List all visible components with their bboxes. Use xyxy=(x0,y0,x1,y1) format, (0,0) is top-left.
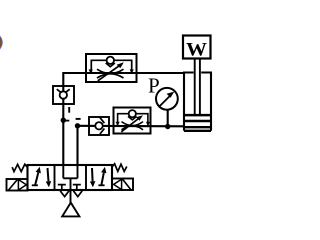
right solenoid box xyxy=(112,179,133,191)
cylinder bottom cap xyxy=(184,127,211,131)
center envelope port B stub xyxy=(77,165,79,178)
wire riser B xyxy=(76,126,78,165)
wire vertical dash mark xyxy=(68,107,70,113)
right pilot triangle xyxy=(114,179,122,189)
directional valve body xyxy=(28,165,113,190)
center blocked port P xyxy=(58,185,66,190)
left envelope up arrow xyxy=(35,173,38,186)
center blocked port T xyxy=(73,185,81,190)
FCV2 check ball xyxy=(129,110,136,117)
check valve CV1 box xyxy=(53,86,74,104)
drain mark right xyxy=(73,191,82,197)
right envelope up arrow xyxy=(101,173,104,186)
check valve CV2 box xyxy=(89,117,109,135)
right solenoid diagonal xyxy=(123,179,131,189)
check valve CV1 seat xyxy=(57,89,70,93)
envelope divider left xyxy=(54,165,56,190)
FCV2 left flow triangle xyxy=(116,122,120,126)
center drain stem xyxy=(70,178,72,203)
center envelope port A stub xyxy=(62,165,64,178)
left envelope down arrow xyxy=(48,168,49,181)
left spring xyxy=(12,164,27,171)
check valve CV2 ball xyxy=(95,122,102,129)
FCV1 check ball xyxy=(107,57,114,64)
left pilot triangle xyxy=(18,180,26,190)
node junction dot at gauge xyxy=(165,124,170,129)
right spring xyxy=(112,164,127,172)
weight W box xyxy=(183,36,211,59)
wire stub right of dot A xyxy=(63,120,69,122)
tank triangle xyxy=(62,203,79,217)
FCV2 bypass loop xyxy=(118,114,148,126)
cylinder body xyxy=(184,71,211,73)
FCV1 throttle arcs xyxy=(97,69,124,78)
cylinder piston xyxy=(184,115,211,121)
drain mark left xyxy=(60,191,69,197)
FCV1 left flow triangle xyxy=(89,69,93,73)
node junction dot A xyxy=(61,118,66,123)
FCV2 throttle arcs xyxy=(122,122,144,130)
flow control valve FCV1 box xyxy=(86,54,137,82)
wire middle pipe to cylinder xyxy=(78,125,186,128)
envelope divider right xyxy=(85,165,87,190)
FCV1 right flow triangle xyxy=(130,69,134,73)
check valve CV1 ball xyxy=(60,91,67,98)
svg-text:W: W xyxy=(186,40,207,61)
FCV2 right flow triangle xyxy=(146,122,150,126)
right envelope bar xyxy=(98,184,104,186)
wire horizontal dash mark xyxy=(76,118,81,120)
text fragment ")" xyxy=(0,37,1,49)
FCV1 bypass loop xyxy=(91,60,131,73)
FCV2 ball seat xyxy=(128,116,137,120)
node junction dot B xyxy=(75,123,80,128)
wire top pipe A to cylinder xyxy=(63,72,185,74)
wire gauge stem xyxy=(167,109,169,127)
center envelope bridge xyxy=(63,177,77,179)
left solenoid box xyxy=(7,179,28,191)
FCV1 ball seat xyxy=(106,63,115,67)
right envelope down arrow xyxy=(91,168,94,181)
FCV1 adjust arrow xyxy=(98,65,121,81)
flow control valve FCV2 box xyxy=(114,108,151,134)
pressure gauge circle xyxy=(156,88,178,110)
cylinder piston rod xyxy=(195,59,200,115)
gauge needle xyxy=(160,95,171,106)
left envelope bar xyxy=(32,184,38,186)
check valve CV2 seat xyxy=(100,118,105,134)
FCV2 adjust arrow xyxy=(121,118,140,132)
svg-text:P: P xyxy=(148,74,160,98)
wire riser A xyxy=(62,72,64,165)
left solenoid diagonal xyxy=(9,180,18,190)
